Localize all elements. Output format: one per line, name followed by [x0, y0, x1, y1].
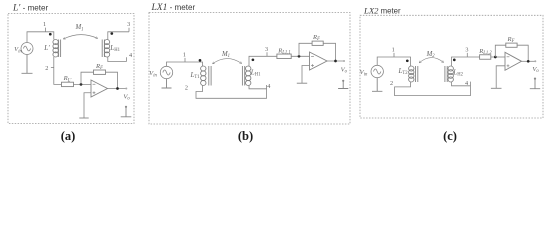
core lines (a) — [59, 40, 61, 58]
wire LH1 bottom to terminal 4 — [108, 57, 127, 62]
ground below source (b) — [162, 79, 172, 88]
svg-text:1: 1 — [183, 51, 186, 58]
junction node (c) — [494, 56, 497, 59]
op-amp U1 (a) — [91, 80, 108, 97]
wire resistor to op-amp minus (b) — [291, 55, 309, 57]
plus sign (b) — [311, 64, 314, 67]
plus sign (a) — [93, 91, 96, 94]
junction node (a) — [80, 83, 83, 86]
output wire (b) — [327, 60, 344, 62]
svg-text:LH1: LH1 — [250, 69, 261, 78]
terminal 3 (c) — [466, 53, 468, 57]
svg-text:LH1: LH1 — [109, 44, 120, 53]
title L' - meter — [12, 4, 49, 14]
svg-text:LX1 - meter: LX1 - meter — [151, 3, 196, 13]
minus sign (b) — [311, 56, 314, 58]
mutual inductance arrow M2 (c) — [419, 58, 443, 63]
ground op-amp plus (b) — [297, 82, 307, 84]
ground op-amp plus (c) — [491, 87, 502, 89]
source Vin (a) — [21, 43, 33, 55]
resistor RL' (a) — [62, 82, 74, 86]
wire source top to LT2 top — [377, 57, 410, 66]
svg-text:(c): (c) — [443, 129, 457, 143]
terminal 1 (a) — [45, 28, 47, 32]
polarity dot primary (a) — [49, 33, 52, 36]
output node (a) — [116, 87, 119, 90]
terminal 4 tick (c) — [469, 82, 471, 86]
svg-text:Vo: Vo — [341, 67, 348, 75]
svg-text:LT2: LT2 — [398, 67, 409, 76]
enclosure box (a) — [8, 14, 134, 124]
feedback wire (c) — [495, 45, 528, 61]
resistor RL1,2 (c) — [480, 55, 491, 60]
ground below source (c) — [372, 78, 382, 92]
output terminal (c) — [534, 60, 536, 62]
ground below source (a) — [22, 55, 33, 74]
resistor RL1,1 (b) — [277, 54, 291, 59]
terminal 3 (a) — [128, 28, 130, 32]
svg-text:(b): (b) — [238, 129, 253, 143]
output terminal (b) — [343, 60, 345, 62]
enclosure box (c) — [360, 15, 543, 118]
output wire (a) — [108, 88, 127, 90]
svg-text:2: 2 — [390, 80, 393, 87]
svg-text:M2: M2 — [426, 51, 436, 59]
polarity dot secondary (a) — [110, 32, 113, 35]
junction node (b) — [298, 55, 301, 58]
wire source top to LT1 top — [167, 62, 203, 66]
bottom link wire (c) — [395, 82, 471, 96]
enclosure box (b) — [149, 13, 350, 125]
minus sign (a) — [93, 83, 96, 85]
inductor LT2 (c) — [409, 66, 414, 82]
inductor LH2 (c) — [448, 66, 453, 82]
ground op-amp plus (a) — [79, 117, 88, 119]
svg-text:Vo: Vo — [532, 66, 539, 74]
output node (b) — [334, 60, 337, 63]
output terminal (a) — [125, 88, 127, 90]
source Vin (c) — [371, 65, 383, 77]
svg-text:RL1,1: RL1,1 — [277, 47, 291, 55]
polarity dot secondary (c) — [453, 59, 456, 62]
polarity dot primary (c) — [406, 59, 409, 62]
terminal 3 (b) — [266, 52, 268, 56]
svg-text:LT1: LT1 — [190, 71, 201, 80]
svg-text:4: 4 — [465, 80, 468, 87]
svg-text:1: 1 — [392, 46, 395, 53]
svg-text:1: 1 — [43, 21, 46, 28]
svg-text:2: 2 — [45, 65, 48, 72]
svg-text:RF: RF — [312, 34, 320, 42]
svg-text:3: 3 — [465, 46, 468, 53]
plus sign (c) — [507, 64, 510, 67]
wire RL' to op-amp minus — [74, 83, 92, 85]
minus sign (c) — [507, 56, 510, 58]
svg-text:4: 4 — [129, 52, 132, 59]
core lines primary (b) — [209, 66, 211, 86]
terminal 2 (a) — [51, 67, 54, 69]
svg-text:RL′: RL′ — [63, 75, 73, 83]
resistor RF (b) — [312, 41, 323, 45]
ground reference bottom right (a) — [125, 106, 127, 108]
svg-text:2: 2 — [185, 85, 188, 92]
core lines secondary (c) — [445, 66, 447, 82]
terminal 1 (c) — [393, 53, 395, 57]
mutual inductance arrow M1 (b) — [213, 59, 242, 64]
svg-text:4: 4 — [267, 83, 270, 90]
inductor LH1 (b) — [246, 66, 251, 85]
output node (c) — [527, 60, 530, 63]
bottom link wire primary (b) — [196, 86, 267, 99]
svg-text:RF: RF — [95, 63, 103, 71]
wire resistor to op-amp minus (c) — [491, 56, 505, 58]
svg-text:(a): (a) — [61, 129, 76, 143]
terminal 1 (b) — [184, 58, 186, 62]
svg-text:LX2 meter: LX2 meter — [363, 6, 401, 16]
svg-text:3: 3 — [265, 46, 268, 53]
wire plus input to ground (b) — [302, 66, 310, 84]
feedback wire (b) — [299, 43, 336, 61]
inductor L' (a) — [53, 40, 58, 58]
inductor LT1 (b) — [201, 66, 206, 85]
terminal 4 (a) — [126, 57, 128, 61]
svg-text:Vin: Vin — [360, 69, 368, 77]
svg-text:M1: M1 — [74, 24, 83, 32]
feedback wire up and over (a) — [81, 72, 118, 88]
wire L' bottom down to RL' — [54, 57, 62, 84]
svg-text:LH2: LH2 — [452, 69, 463, 78]
ground reference bottom right (c) — [534, 78, 536, 80]
op-amp U2 (b) — [310, 52, 328, 70]
polarity dot primary (b) — [199, 59, 202, 62]
output wire (c) — [522, 60, 536, 62]
svg-text:Vin: Vin — [149, 70, 157, 78]
wire plus input to ground (a) — [84, 93, 91, 118]
terminal 4 tick (b) — [266, 85, 268, 89]
wire source top to L' top — [27, 32, 54, 43]
resistor RF (c) — [506, 43, 517, 47]
op-amp U3 (c) — [505, 52, 522, 70]
polarity dot secondary (b) — [252, 58, 255, 61]
wire plus input to ground (c) — [496, 66, 505, 89]
svg-text:L′ - meter: L′ - meter — [12, 4, 49, 14]
svg-text:RF: RF — [507, 36, 515, 44]
resistor RF (a) — [94, 70, 106, 74]
svg-text:M1: M1 — [221, 51, 230, 59]
svg-text:Vo: Vo — [123, 94, 130, 102]
ground reference bottom right (b) — [342, 80, 344, 82]
mutual inductance arrow M1 (a) — [63, 35, 97, 39]
core lines secondary (a) — [102, 40, 104, 58]
svg-text:3: 3 — [127, 21, 130, 28]
core lines secondary (b) — [242, 66, 244, 86]
wire LH1 top to terminal 3 — [108, 32, 129, 40]
wire LH2 top to resistor (c) — [452, 57, 480, 66]
wire LH1 top to resistor (b) — [249, 56, 277, 66]
core lines primary (c) — [416, 66, 418, 82]
svg-text:L′: L′ — [43, 44, 50, 52]
source Vin (b) — [160, 66, 172, 78]
inductor LH1 (a) — [104, 40, 109, 58]
svg-text:RL1,2: RL1,2 — [478, 48, 492, 56]
